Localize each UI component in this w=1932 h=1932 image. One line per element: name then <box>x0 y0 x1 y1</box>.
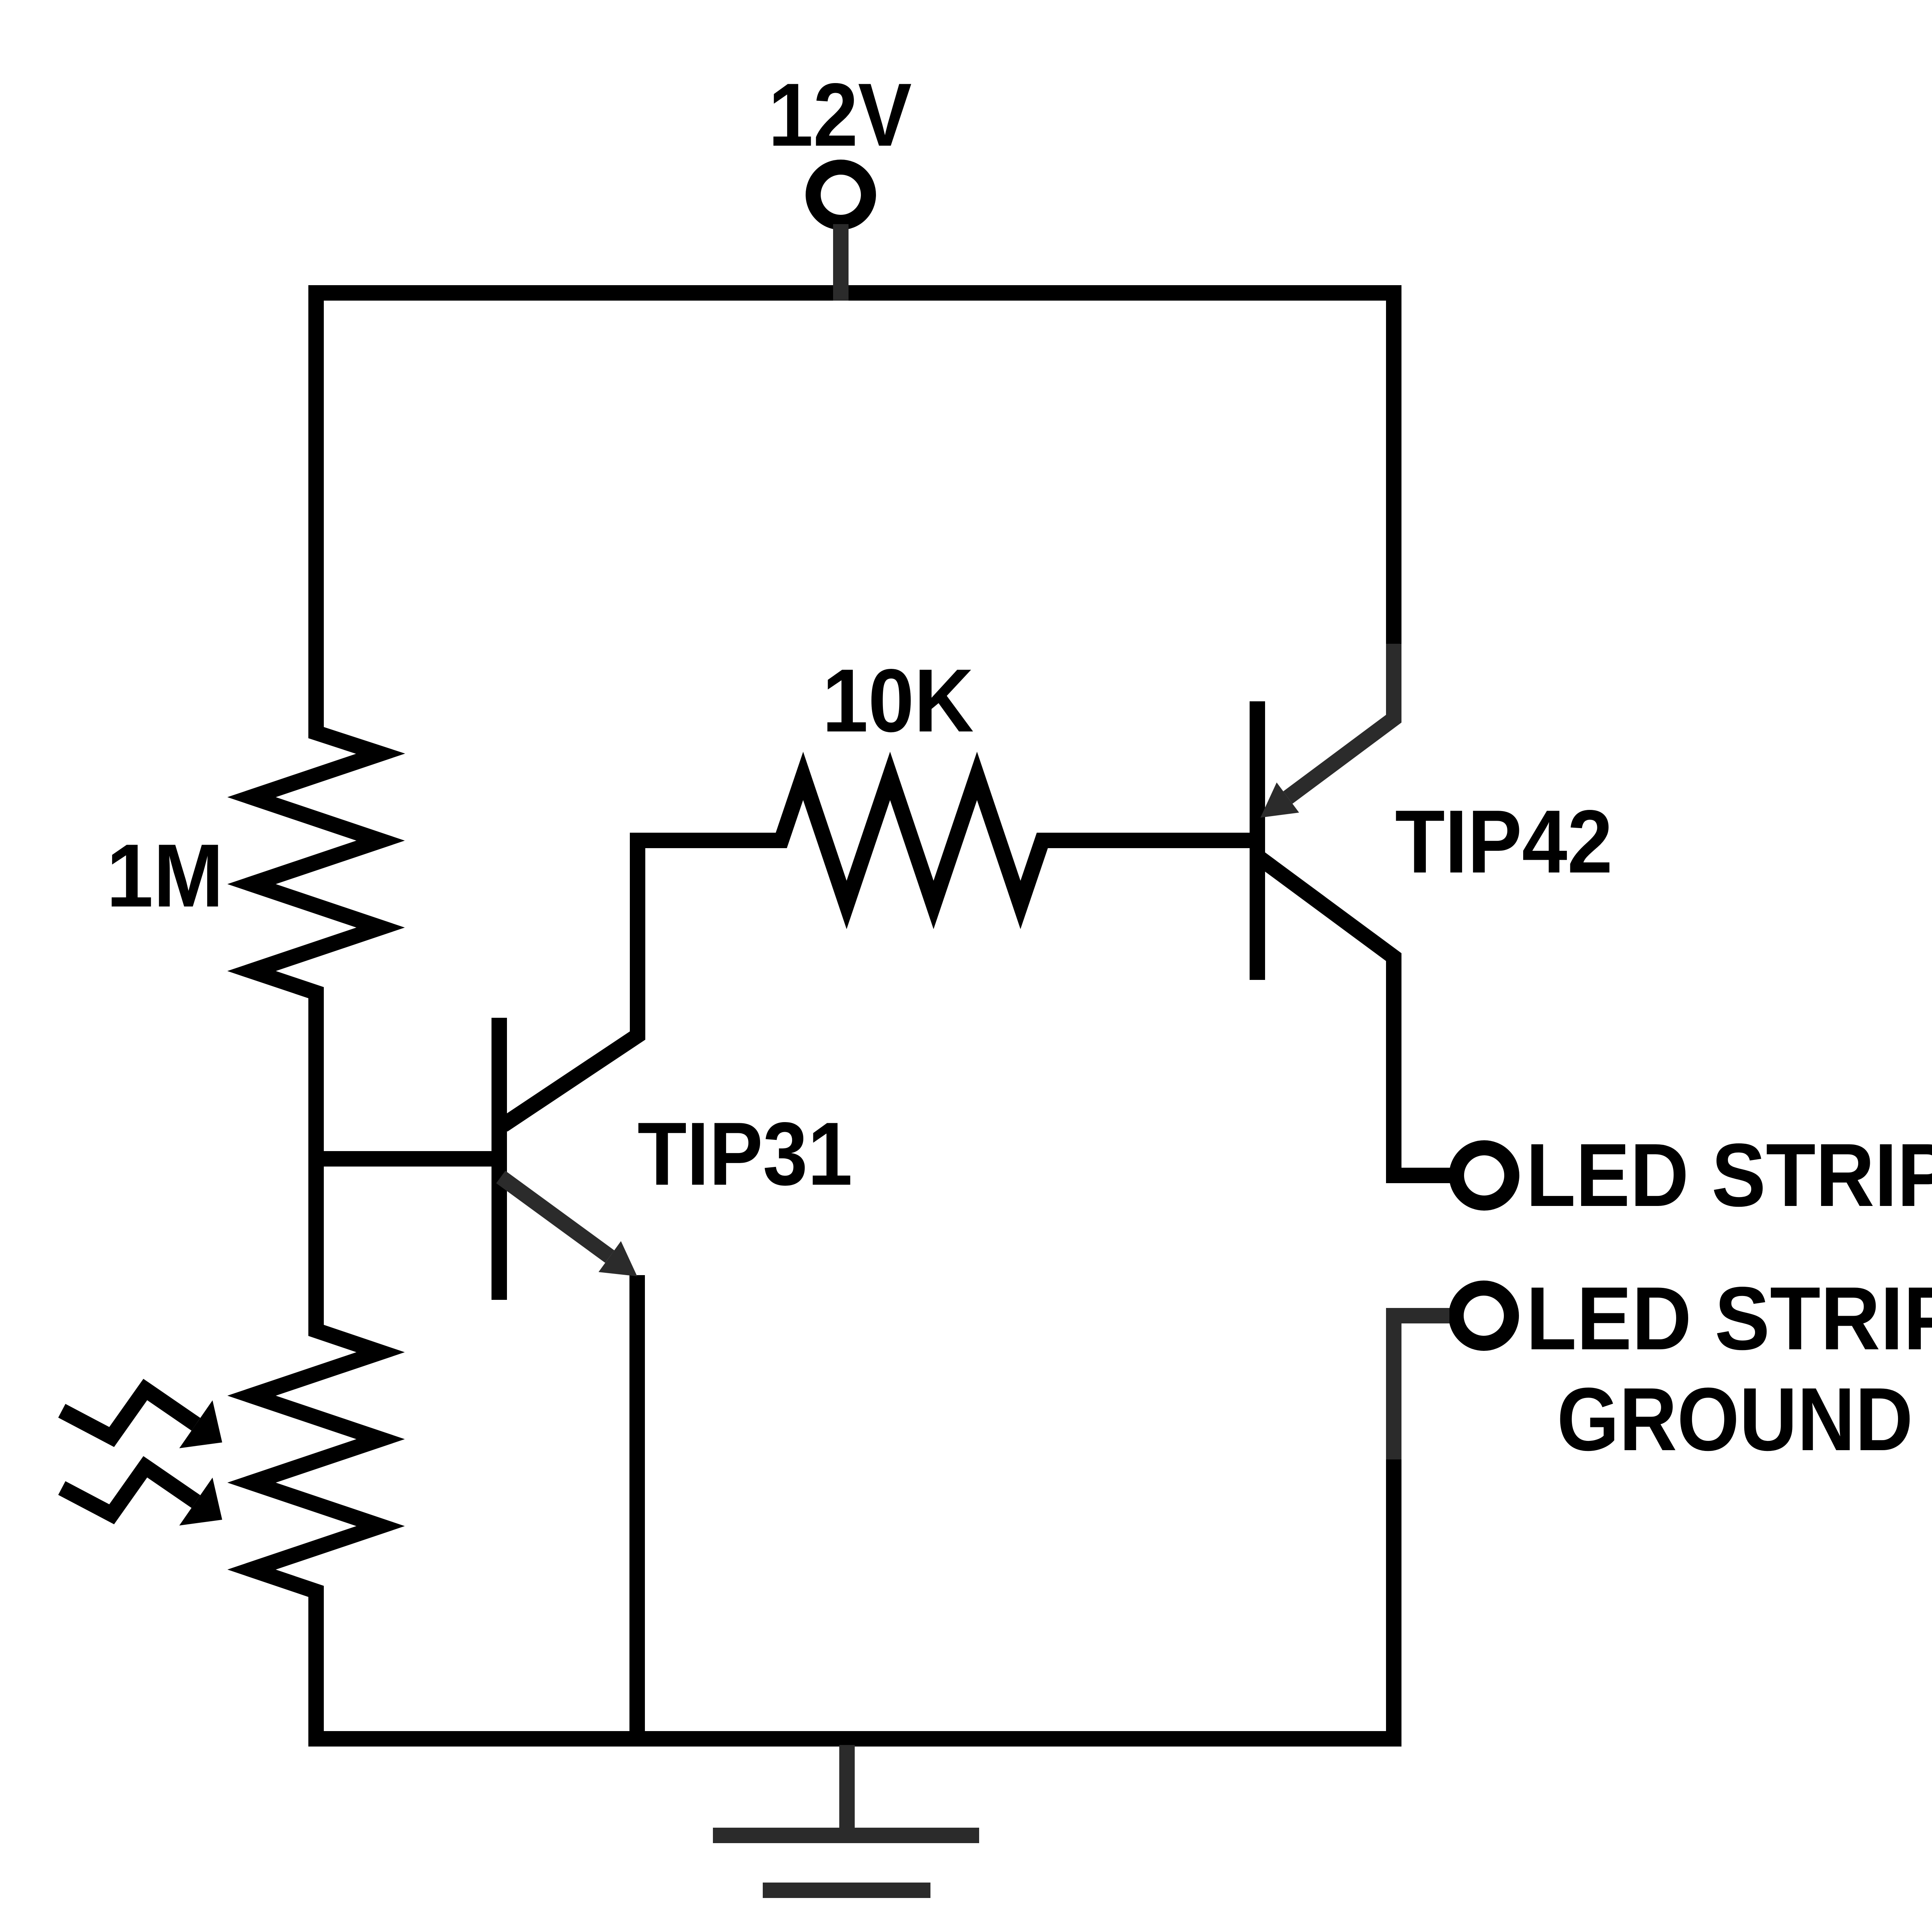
terminal LED STRIP +V <box>1457 1148 1512 1203</box>
wire LED STRIP GROUND terminal to ground rail <box>1394 1316 1449 1459</box>
transistor Q1 TIP31 base bar <box>492 1018 507 1300</box>
wire top rail and side rails (12V supply rail) <box>316 293 1394 733</box>
transistor Q2 TIP42 emitter arrowhead <box>1260 782 1299 818</box>
light arrow 2 shaft <box>62 1467 196 1514</box>
terminal LED STRIP GROUND <box>1456 1288 1512 1344</box>
wire emitter lead of Q1 to ground rail <box>629 1275 645 1739</box>
wire collector of Q2 to LED STRIP +V terminal <box>1260 859 1451 1175</box>
svg-text:TIP31: TIP31 <box>638 1104 852 1204</box>
wire resistor 10K to base of Q2 <box>1043 833 1258 848</box>
resistor R1 1M <box>252 703 381 1020</box>
wire base of Q1 <box>316 1151 499 1167</box>
ground symbol bar 1 <box>713 1828 979 1843</box>
transistor Q1 TIP31 emitter arrowhead <box>599 1241 637 1276</box>
svg-text:LED STRIP +V: LED STRIP +V <box>1526 1125 1932 1225</box>
light arrow 1 shaft <box>62 1389 196 1437</box>
svg-text:LED STRIP: LED STRIP <box>1526 1269 1932 1369</box>
svg-text:GROUND: GROUND <box>1557 1369 1913 1469</box>
wire left rail middle segment <box>308 993 324 1330</box>
terminal 12V <box>813 167 869 223</box>
wire collector of Q1 to resistor 10K <box>503 840 781 1125</box>
photoresistor LDR <box>252 1302 381 1619</box>
wire 12V terminal stub <box>833 224 849 301</box>
svg-text:1M: 1M <box>106 825 224 925</box>
svg-text:10K: 10K <box>822 651 974 751</box>
ground symbol bar 2 <box>763 1883 930 1898</box>
transistor Q2 TIP42 base bar <box>1250 701 1265 980</box>
light arrow 2 head <box>179 1478 222 1526</box>
wire bottom rail (ground rail) <box>316 1459 1394 1739</box>
transistor Q2 TIP42 emitter arrow shaft <box>1288 644 1394 798</box>
svg-text:12V: 12V <box>768 65 912 165</box>
transistor Q1 TIP31 emitter arrow shaft <box>501 1177 610 1257</box>
svg-text:TIP42: TIP42 <box>1395 792 1612 892</box>
light arrow 1 head <box>179 1400 222 1448</box>
resistor R2 10K <box>753 776 1070 905</box>
ground symbol stem <box>839 1745 855 1835</box>
